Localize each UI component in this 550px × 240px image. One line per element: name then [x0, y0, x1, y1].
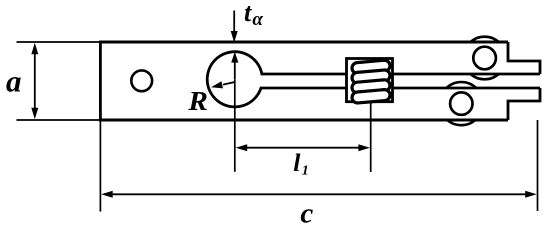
bar bottom edge — [100, 119, 508, 122]
svg-text:t: t — [244, 0, 252, 27]
dimension l1: dim line — [245, 147, 360, 149]
roller lower (behind lower arm) — [440, 82, 483, 125]
svg-text:c: c — [300, 197, 313, 229]
svg-text:l: l — [293, 148, 301, 177]
dimension l1: left extension (from circle centre) — [234, 80, 236, 172]
dimension c: right extension — [537, 120, 539, 211]
coil turn 2 — [352, 70, 391, 84]
roller upper (behind upper arm) — [463, 37, 506, 80]
dimension c: left extension — [99, 122, 101, 212]
svg-text:R: R — [187, 86, 208, 116]
coil wrap outer rectangle — [347, 59, 393, 102]
coil turn 3 — [352, 79, 391, 93]
coil turn 1 — [352, 60, 391, 74]
bar top edge — [100, 41, 508, 44]
bar left edge — [99, 41, 102, 122]
upper arm right step vertical — [508, 42, 540, 74]
dimension l1: right extension (from coil bottom) — [370, 102, 372, 172]
svg-text:α: α — [252, 9, 263, 30]
pin upper — [473, 47, 496, 70]
svg-text:a: a — [6, 64, 22, 99]
dimension a: arrow line — [34, 50, 36, 112]
keyhole notch: circle with slot — [207, 52, 540, 107]
pin lower — [450, 92, 472, 114]
dimension a: top extension — [17, 41, 101, 43]
radius arrow to circle top — [234, 60, 236, 80]
R radius arrow — [223, 82, 235, 85]
coil turn 4 — [352, 89, 391, 103]
dimension a: bottom extension — [17, 119, 101, 121]
dimension c: dim line — [110, 193, 528, 195]
t_alpha arrow line — [233, 11, 235, 34]
svg-text:1: 1 — [302, 164, 309, 179]
specimen body white fill — [100, 42, 540, 120]
lower arm right step vertical — [508, 88, 540, 120]
t_alpha arrowhead — [231, 31, 238, 43]
left hole — [131, 70, 152, 91]
